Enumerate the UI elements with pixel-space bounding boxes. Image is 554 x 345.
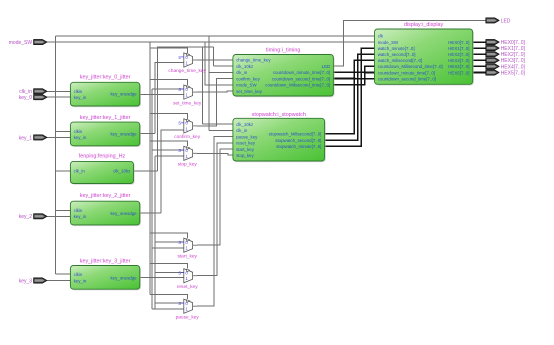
wire net clk_10kz channel riser bbox=[158, 47, 214, 171]
wire bus HEX5 display to pin bbox=[473, 72, 489, 74]
mux start_key bbox=[177, 238, 197, 259]
wire net key_0 pin to key_0_jitter key_in bbox=[47, 96, 70, 98]
svg-text:S: S bbox=[178, 301, 181, 306]
svg-text:reset_key: reset_key bbox=[236, 141, 256, 146]
svg-text:key_in: key_in bbox=[74, 278, 87, 283]
wire net key_2_onesdge riser bbox=[151, 89, 153, 309]
output pin HEX5 bbox=[486, 70, 526, 77]
module key_jitter:key_3_jitter bbox=[70, 259, 141, 291]
wire net LED from timing to LED pin bbox=[333, 20, 488, 66]
svg-text:clk_10kz: clk_10kz bbox=[236, 64, 253, 69]
module key_jitter:key_1_jitter bbox=[70, 115, 141, 147]
wire net clk_in trunk vertical bbox=[54, 36, 56, 274]
module display:i_display bbox=[375, 22, 474, 85]
svg-text:watch_second[7..0]: watch_second[7..0] bbox=[378, 52, 416, 57]
mux stop_key bbox=[178, 146, 198, 167]
wire net mode_SW rail to display mode_SW bbox=[47, 41, 375, 43]
svg-text:S: S bbox=[178, 240, 181, 245]
wire net clk_in branch key_2_jitter clkin bbox=[55, 209, 70, 211]
svg-text:stop_key: stop_key bbox=[178, 162, 198, 168]
wire net clk_in branch key_3_jitter clkin bbox=[55, 273, 70, 275]
wire net change_time_key to timing bbox=[197, 59, 233, 61]
wire bus HEX2 display to pin bbox=[473, 53, 489, 55]
wire bus stopwatch_minute to display watch_minute bbox=[325, 48, 375, 146]
wire net key_2_onesdge stub pause mux in1 bbox=[152, 308, 184, 310]
svg-text:stopwatch_minute[7..0]: stopwatch_minute[7..0] bbox=[276, 144, 321, 149]
input pin key_0 bbox=[19, 95, 47, 102]
svg-text:S: S bbox=[178, 55, 181, 60]
svg-text:key_1: key_1 bbox=[19, 135, 33, 141]
svg-text:confirm_key: confirm_key bbox=[236, 76, 260, 81]
wire net pause_key to stopwatch bbox=[197, 137, 233, 307]
svg-text:timing:i_timing: timing:i_timing bbox=[266, 48, 300, 54]
svg-text:S: S bbox=[178, 271, 181, 276]
svg-text:key_0: key_0 bbox=[19, 95, 33, 101]
output pin HEX4 bbox=[486, 64, 526, 71]
svg-text:key_jitter:key_0_jitter: key_jitter:key_0_jitter bbox=[80, 75, 131, 81]
output pin HEX0 bbox=[486, 40, 526, 47]
wire net clk_in pin stub to key_0_jitter clkin bbox=[47, 90, 70, 92]
svg-text:LED: LED bbox=[501, 18, 511, 24]
wire net mode_SW sel feeder stop bbox=[150, 141, 188, 146]
wire net clk_10kz fenping out to channel bbox=[134, 170, 158, 172]
svg-text:HEX2[7..0]: HEX2[7..0] bbox=[501, 52, 526, 58]
svg-text:countdown_Milisecond_time[7..0: countdown_Milisecond_time[7..0] bbox=[378, 64, 443, 69]
wire net clk_10kz stub stopwatch clk_10kz bbox=[203, 123, 233, 125]
module key_jitter:key_2_jitter bbox=[70, 193, 141, 226]
svg-text:S: S bbox=[178, 121, 181, 126]
svg-text:countdown_minute_time[7..0]: countdown_minute_time[7..0] bbox=[273, 70, 330, 75]
svg-text:clk_in: clk_in bbox=[236, 70, 248, 75]
svg-text:mode_SW: mode_SW bbox=[9, 40, 33, 46]
wire net clk_in drop to timing and stopwatch bbox=[208, 36, 210, 131]
svg-text:countdown_second_time[7..0]: countdown_second_time[7..0] bbox=[272, 76, 330, 81]
svg-text:key_onesdge: key_onesdge bbox=[110, 275, 137, 280]
svg-text:pause_key: pause_key bbox=[176, 314, 200, 320]
svg-text:change_time_key: change_time_key bbox=[168, 68, 206, 74]
wire net key_3_onesdge stub stop mux in1 bbox=[155, 155, 184, 157]
wire net key_3_onesdge to reset mux in1 bbox=[140, 277, 184, 279]
wire bus stopwatch_second to display watch_second bbox=[325, 54, 375, 140]
wire net mode_SW sel feeder reset bbox=[150, 264, 188, 269]
module stopwatch:i_stopwatch bbox=[233, 112, 326, 162]
wire net key_2 pin to key_2_jitter key_in bbox=[47, 215, 70, 217]
mux reset_key bbox=[177, 269, 198, 290]
wire net key_0_onesdge to set_time mux in1 bbox=[140, 93, 184, 95]
mux confirm_key bbox=[174, 119, 200, 140]
wire net mode_SW sel feeder pause bbox=[150, 295, 188, 300]
svg-text:reset_key: reset_key bbox=[177, 284, 198, 290]
svg-text:LED: LED bbox=[322, 64, 331, 69]
svg-text:confirm_key: confirm_key bbox=[174, 134, 200, 140]
svg-text:fenping:fenping_Hz: fenping:fenping_Hz bbox=[79, 154, 126, 160]
wire net start_key to stopwatch bbox=[197, 149, 233, 245]
wire net key_1_onesdge out bbox=[140, 133, 155, 135]
svg-text:clkin: clkin bbox=[74, 272, 83, 277]
output pin HEX1 bbox=[486, 46, 526, 53]
svg-text:key_onesdge: key_onesdge bbox=[110, 211, 137, 216]
wire net key_2_onesdge riser to confirm mux in1 bbox=[161, 130, 184, 213]
wire net key_2_onesdge stub start mux in1 bbox=[152, 247, 184, 249]
wire net mode_SW sel feeder start bbox=[150, 233, 188, 238]
svg-text:stop_key: stop_key bbox=[236, 153, 254, 158]
svg-text:key_in: key_in bbox=[74, 135, 87, 140]
wire net clk_10kz drop to stopwatch bbox=[202, 47, 204, 124]
wire bus countdown_Milisecond_time to display bbox=[333, 66, 374, 84]
svg-text:countdown_minute_time[7..0]: countdown_minute_time[7..0] bbox=[378, 70, 435, 75]
wire bus stopwatch_milisecond to display watch_milisecond bbox=[325, 60, 375, 134]
svg-text:key_jitter:key_1_jitter: key_jitter:key_1_jitter bbox=[80, 115, 131, 121]
svg-text:clk_in: clk_in bbox=[236, 128, 248, 133]
svg-text:display:i_display: display:i_display bbox=[404, 22, 444, 28]
module key_jitter:key_0_jitter bbox=[70, 75, 141, 108]
module fenping:fenping_Hz bbox=[70, 154, 134, 185]
svg-text:stopwatch_second[7..0]: stopwatch_second[7..0] bbox=[275, 138, 321, 143]
wire bus countdown_second_time to display bbox=[333, 78, 374, 80]
wire net clk_10kz drop to timing bbox=[212, 47, 214, 66]
wire bus HEX3 display to pin bbox=[473, 59, 489, 61]
wire net mode_SW sel feeder set_time bbox=[150, 80, 188, 85]
svg-text:pause_key: pause_key bbox=[236, 134, 258, 139]
svg-text:HEX4[7..0]: HEX4[7..0] bbox=[501, 64, 526, 70]
svg-text:countdown_second_time[7..0]: countdown_second_time[7..0] bbox=[378, 76, 436, 81]
svg-text:set_time_key: set_time_key bbox=[173, 100, 202, 106]
input pin clk_in bbox=[19, 89, 47, 96]
wire net clk_in top rail to display clk bbox=[55, 35, 374, 37]
input pin key_1 bbox=[19, 135, 47, 142]
svg-text:HEX1[7..0]: HEX1[7..0] bbox=[448, 46, 469, 51]
svg-text:stopwatch:i_stopwatch: stopwatch:i_stopwatch bbox=[252, 112, 306, 118]
wire net key_3_onesdge riser lower bbox=[154, 156, 156, 309]
svg-text:clkin: clkin bbox=[74, 208, 83, 213]
svg-text:key_jitter:key_3_jitter: key_jitter:key_3_jitter bbox=[80, 259, 131, 265]
input pin key_2 bbox=[19, 214, 47, 221]
svg-text:HEX5[7..0]: HEX5[7..0] bbox=[448, 70, 469, 75]
svg-text:key_2: key_2 bbox=[19, 214, 33, 220]
wire bus countdown_minute_time to display bbox=[333, 71, 374, 73]
mux pause_key bbox=[176, 299, 200, 320]
svg-text:clk_10kz: clk_10kz bbox=[113, 169, 130, 174]
wire net clk_in stub timing clk_in bbox=[209, 71, 233, 73]
svg-text:change_time_key: change_time_key bbox=[236, 58, 271, 63]
svg-text:mode_SW: mode_SW bbox=[236, 83, 257, 88]
wire bus HEX1 display to pin bbox=[473, 47, 489, 49]
svg-text:HEX3[7..0]: HEX3[7..0] bbox=[448, 58, 469, 63]
wire bus HEX4 display to pin bbox=[473, 65, 489, 67]
svg-text:countdown_Milisecond_time[7..0: countdown_Milisecond_time[7..0] bbox=[265, 83, 330, 88]
svg-text:key_in: key_in bbox=[74, 95, 87, 100]
wire net mode_SW drop to timing mode_SW bbox=[205, 42, 233, 85]
svg-text:clkin: clkin bbox=[74, 89, 83, 94]
svg-text:HEX1[7..0]: HEX1[7..0] bbox=[501, 46, 526, 52]
wire net reset_key to stopwatch bbox=[197, 143, 233, 276]
input pin mode_SW bbox=[9, 40, 47, 47]
svg-text:S: S bbox=[178, 148, 181, 153]
wire net mode_SW sel feeder confirm bbox=[150, 114, 188, 119]
wire net key_2_onesdge out bbox=[140, 212, 161, 214]
svg-text:HEX2[7..0]: HEX2[7..0] bbox=[448, 52, 469, 57]
svg-text:start_key: start_key bbox=[236, 147, 255, 152]
wire net clk_in branch key_1_jitter clkin bbox=[55, 130, 70, 132]
wire net mode_SW sel feeder change_time bbox=[150, 48, 188, 53]
svg-text:S: S bbox=[178, 87, 181, 92]
wire net stop_key to stopwatch bbox=[197, 153, 233, 155]
svg-text:clkin: clkin bbox=[74, 129, 83, 134]
wire net clk_10kz stub timing clk_10kz bbox=[213, 65, 233, 67]
svg-text:HEX3[7..0]: HEX3[7..0] bbox=[501, 58, 526, 64]
output pin HEX2 bbox=[486, 52, 526, 59]
input pin key_3 bbox=[19, 278, 47, 285]
svg-text:start_key: start_key bbox=[177, 253, 197, 259]
svg-text:clk: clk bbox=[378, 34, 384, 39]
wire net key_1 pin to key_1_jitter key_in bbox=[47, 136, 70, 138]
svg-text:set_time_key: set_time_key bbox=[236, 89, 263, 94]
wire net key_3_onesdge stub start mux in0 bbox=[155, 241, 184, 243]
wire net mode_SW select trunk bbox=[149, 42, 151, 295]
svg-text:key_3: key_3 bbox=[19, 278, 33, 284]
mux set_time_key bbox=[173, 85, 202, 106]
wire net key_2_onesdge stub set_time mux in0 bbox=[152, 88, 184, 90]
svg-text:HEX5[7..0]: HEX5[7..0] bbox=[501, 70, 526, 76]
svg-text:HEX4[7..0]: HEX4[7..0] bbox=[448, 64, 469, 69]
svg-text:clk_in: clk_in bbox=[74, 169, 86, 174]
output pin LED bbox=[486, 18, 511, 25]
wire net key_1_onesdge riser change_time mux in1 bbox=[155, 63, 184, 134]
svg-text:key_jitter:key_2_jitter: key_jitter:key_2_jitter bbox=[80, 193, 131, 199]
wire net key_2_onesdge stub stop mux in0 bbox=[152, 149, 184, 151]
wire bus HEX0 display to pin bbox=[473, 41, 489, 43]
wire net set_time_key to timing bbox=[197, 91, 233, 92]
svg-text:mode_SW: mode_SW bbox=[378, 40, 399, 45]
wire net confirm_key to timing bbox=[197, 79, 233, 126]
svg-text:key_onesdge: key_onesdge bbox=[110, 132, 137, 137]
svg-text:key_onesdge: key_onesdge bbox=[110, 92, 137, 97]
module timing:i_timing bbox=[233, 48, 335, 98]
svg-text:key_in: key_in bbox=[74, 214, 87, 219]
output pin HEX3 bbox=[486, 58, 526, 64]
svg-text:HEX0[7..0]: HEX0[7..0] bbox=[448, 40, 469, 45]
svg-text:stopwatch_Milisecond[7..0]: stopwatch_Milisecond[7..0] bbox=[269, 132, 322, 137]
svg-text:watch_minute[7..0]: watch_minute[7..0] bbox=[378, 46, 415, 51]
svg-text:watch_milisecond[7..0]: watch_milisecond[7..0] bbox=[378, 58, 422, 63]
mux change_time_key bbox=[168, 53, 206, 74]
wire net key_3_onesdge stub pause mux in0 bbox=[155, 302, 184, 304]
wire net key_3_onesdge stub reset mux in0 bbox=[155, 272, 184, 274]
wire net key_3 pin to key_3_jitter key_in bbox=[47, 280, 70, 282]
wire net clk_in stub stopwatch clk_in bbox=[209, 129, 233, 131]
svg-text:clk_10kz: clk_10kz bbox=[236, 122, 253, 127]
wire net clk_in branch fenping clk_in bbox=[55, 170, 70, 172]
